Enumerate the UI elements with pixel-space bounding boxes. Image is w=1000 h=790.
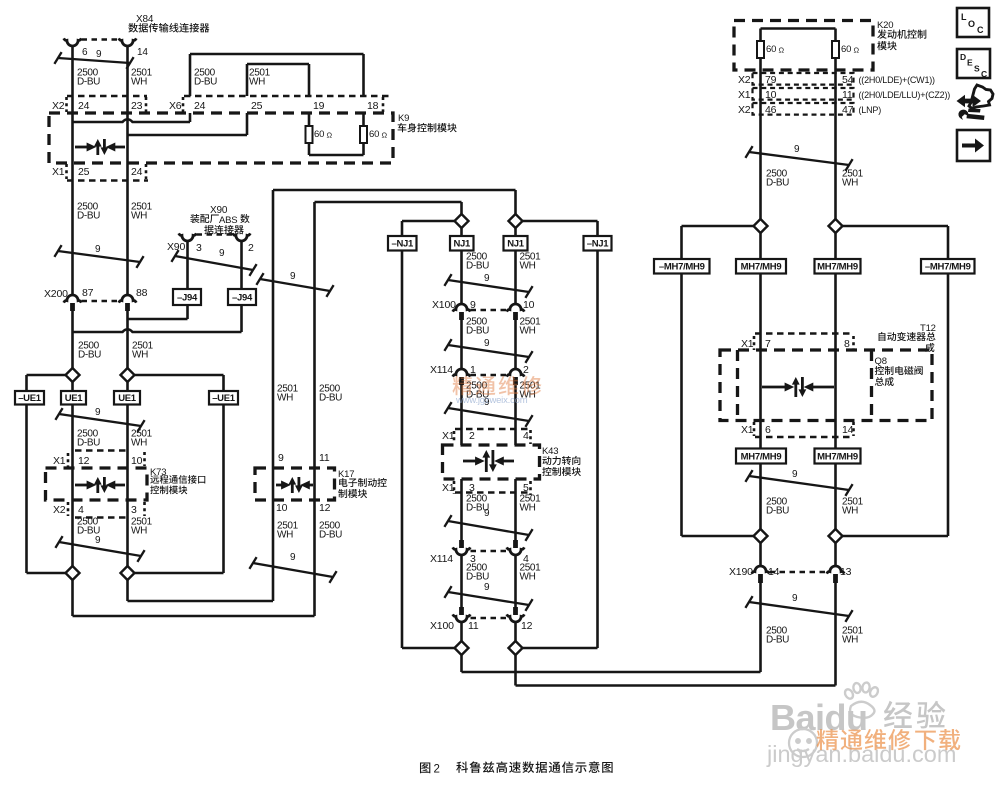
svg-text:E: E [967, 58, 973, 68]
svg-text:D-BU: D-BU [466, 326, 489, 337]
svg-text:–NJ1: –NJ1 [391, 239, 414, 250]
svg-text:4: 4 [78, 504, 84, 516]
svg-text:24: 24 [78, 100, 90, 112]
svg-text:D-BU: D-BU [77, 77, 100, 88]
svg-text:–J94: –J94 [177, 292, 198, 303]
svg-text:www.jgzweix.com: www.jgzweix.com [455, 395, 528, 406]
svg-text:–MH7/MH9: –MH7/MH9 [659, 262, 705, 273]
svg-text:X6: X6 [169, 100, 182, 112]
svg-text:47: 47 [842, 104, 854, 116]
svg-text:K43: K43 [542, 446, 558, 457]
svg-text:D-BU: D-BU [319, 393, 342, 404]
svg-text:O: O [968, 19, 975, 29]
svg-text:((2H0/LDE/LLU)+(CZ2)): ((2H0/LDE/LLU)+(CZ2)) [859, 90, 951, 100]
svg-text:Ω: Ω [382, 131, 388, 140]
svg-text:L: L [961, 12, 967, 22]
svg-text:9: 9 [792, 469, 798, 480]
svg-text:46: 46 [765, 104, 777, 116]
svg-text:2: 2 [434, 764, 440, 776]
svg-text:X100: X100 [430, 620, 454, 632]
svg-text:K9: K9 [398, 113, 409, 124]
svg-text:–NJ1: –NJ1 [587, 239, 610, 250]
svg-text:25: 25 [78, 166, 90, 178]
svg-text:WH: WH [131, 77, 147, 88]
svg-text:3: 3 [196, 242, 202, 254]
svg-text:D-BU: D-BU [194, 77, 217, 88]
svg-text:12: 12 [319, 502, 331, 514]
svg-text:14: 14 [842, 424, 854, 436]
svg-text:9: 9 [484, 582, 490, 593]
svg-text:NJ1: NJ1 [507, 239, 525, 250]
svg-text:WH: WH [131, 526, 147, 537]
svg-text:D: D [960, 52, 966, 62]
svg-text:Ω: Ω [327, 131, 333, 140]
svg-text:9: 9 [95, 244, 101, 255]
svg-text:X90: X90 [167, 241, 185, 253]
svg-text:X190: X190 [729, 566, 753, 578]
svg-text:–MH7/MH9: –MH7/MH9 [925, 262, 971, 273]
svg-text:D-BU: D-BU [766, 635, 789, 646]
svg-text:UE1: UE1 [118, 393, 137, 404]
svg-text:X1: X1 [738, 89, 751, 101]
svg-text:X114: X114 [430, 364, 453, 376]
svg-text:12: 12 [78, 455, 90, 467]
svg-text:9: 9 [95, 535, 101, 546]
svg-text:9: 9 [794, 144, 800, 155]
svg-text:54: 54 [842, 74, 854, 86]
svg-text:9: 9 [484, 273, 490, 284]
svg-text:60: 60 [314, 129, 324, 140]
svg-text:C: C [977, 25, 984, 35]
svg-text:–UE1: –UE1 [212, 393, 236, 404]
svg-text:MH7/MH9: MH7/MH9 [817, 262, 858, 273]
svg-text:NJ1: NJ1 [453, 239, 471, 250]
svg-text:–J94: –J94 [232, 292, 253, 303]
svg-text:7: 7 [765, 338, 771, 350]
svg-text:MH7/MH9: MH7/MH9 [741, 262, 782, 273]
svg-text:WH: WH [520, 572, 536, 583]
svg-text:X1: X1 [741, 424, 754, 436]
svg-text:10: 10 [131, 455, 143, 467]
svg-text:K17: K17 [338, 469, 354, 480]
svg-text:23: 23 [131, 100, 143, 112]
svg-text:18: 18 [367, 100, 379, 112]
svg-text:9: 9 [792, 593, 798, 604]
svg-text:UE1: UE1 [65, 393, 84, 404]
svg-text:24: 24 [131, 166, 143, 178]
svg-text:2: 2 [469, 430, 475, 442]
svg-text:WH: WH [131, 211, 147, 222]
svg-text:C: C [981, 69, 987, 79]
svg-text:X2: X2 [53, 504, 66, 516]
svg-text:X1: X1 [741, 338, 754, 350]
svg-text:60: 60 [841, 44, 851, 55]
svg-text:X100: X100 [432, 299, 456, 311]
svg-text:D-BU: D-BU [78, 350, 101, 361]
svg-text:–UE1: –UE1 [18, 393, 42, 404]
svg-text:((2H0/LDE)+(CW1)): ((2H0/LDE)+(CW1)) [859, 75, 936, 85]
svg-text:D-BU: D-BU [77, 438, 100, 449]
svg-text:K20: K20 [877, 20, 893, 31]
svg-text:X2: X2 [738, 74, 751, 86]
svg-text:D-BU: D-BU [319, 530, 342, 541]
svg-text:9: 9 [290, 271, 296, 282]
svg-text:D-BU: D-BU [466, 261, 489, 272]
svg-text:24: 24 [194, 100, 206, 112]
svg-text:25: 25 [251, 100, 263, 112]
svg-text:X200: X200 [44, 288, 68, 300]
svg-text:WH: WH [520, 261, 536, 272]
svg-text:WH: WH [842, 635, 858, 646]
svg-text:14: 14 [137, 47, 148, 58]
svg-text:WH: WH [132, 350, 148, 361]
svg-text:10: 10 [765, 89, 777, 101]
svg-text:60: 60 [369, 129, 379, 140]
svg-text:WH: WH [249, 77, 265, 88]
svg-text:WH: WH [131, 438, 147, 449]
svg-text:9: 9 [290, 552, 296, 563]
svg-text:WH: WH [277, 393, 293, 404]
svg-text:D-BU: D-BU [466, 572, 489, 583]
svg-text:4: 4 [523, 430, 529, 442]
svg-text:11: 11 [319, 452, 330, 464]
svg-text:9: 9 [278, 452, 284, 464]
svg-text:MH7/MH9: MH7/MH9 [741, 451, 782, 462]
svg-text:X2: X2 [738, 104, 751, 116]
svg-text:11: 11 [468, 620, 479, 632]
svg-text:60: 60 [766, 44, 776, 55]
svg-text:D-BU: D-BU [77, 211, 100, 222]
svg-text:9: 9 [96, 49, 102, 60]
svg-text:Q8: Q8 [875, 356, 887, 367]
svg-text:79: 79 [765, 74, 777, 86]
svg-text:11: 11 [842, 89, 853, 101]
svg-text:WH: WH [842, 178, 858, 189]
svg-text:87: 87 [82, 287, 94, 299]
svg-text:(LNP): (LNP) [859, 105, 882, 115]
svg-text:X114: X114 [430, 553, 453, 565]
svg-text:WH: WH [520, 503, 536, 514]
svg-text:Ω: Ω [779, 46, 785, 55]
svg-text:9: 9 [219, 248, 225, 259]
svg-text:10: 10 [276, 502, 288, 514]
svg-text:ABS: ABS [219, 215, 237, 226]
svg-text:WH: WH [842, 506, 858, 517]
svg-text:8: 8 [844, 338, 850, 350]
svg-text:Ω: Ω [854, 46, 860, 55]
svg-text:D-BU: D-BU [766, 506, 789, 517]
svg-text:WH: WH [520, 326, 536, 337]
svg-text:6: 6 [82, 47, 88, 58]
svg-text:9: 9 [484, 338, 490, 349]
svg-text:X1: X1 [52, 166, 65, 178]
svg-text:X1: X1 [53, 455, 66, 467]
svg-text:2: 2 [248, 242, 254, 254]
svg-text:MH7/MH9: MH7/MH9 [817, 451, 858, 462]
svg-text:10: 10 [523, 299, 535, 311]
svg-text:X2: X2 [52, 100, 65, 112]
svg-text:12: 12 [521, 620, 533, 632]
svg-text:D-BU: D-BU [766, 178, 789, 189]
svg-text:3: 3 [131, 504, 137, 516]
svg-text:19: 19 [313, 100, 325, 112]
svg-text:9: 9 [484, 508, 490, 519]
svg-text:S: S [974, 64, 980, 74]
svg-text:6: 6 [765, 424, 771, 436]
svg-text:WH: WH [277, 530, 293, 541]
svg-text:9: 9 [95, 407, 101, 418]
svg-text:jingyan.baidu.com: jingyan.baidu.com [766, 741, 956, 767]
svg-text:88: 88 [136, 287, 148, 299]
